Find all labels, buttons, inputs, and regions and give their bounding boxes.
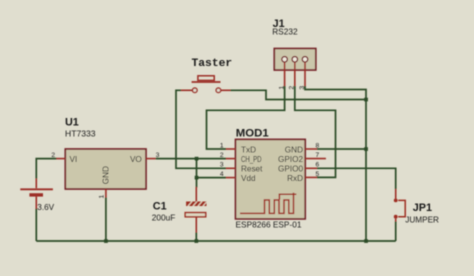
regulator U1 body [65,149,146,189]
svg-text:ESP8266 ESP-01: ESP8266 ESP-01 [236,220,302,230]
svg-text:RS232: RS232 [272,27,298,37]
junction node C1 rail [195,239,199,243]
pushbutton right lead [221,89,231,91]
jumper JP1 bracket [398,200,405,216]
svg-text:TxD: TxD [241,145,256,154]
wire: U1 VO to MOD1 CH_PD [156,158,226,160]
wire: J1 pin2 to MOD1 RxD [295,86,336,177]
svg-text:2: 2 [289,86,296,90]
pushbutton Taster cap [198,76,214,81]
pushbutton left lead [181,89,192,91]
battery BAT1 3.6V [20,179,53,209]
J1 pin 3 circle [302,57,308,63]
MOD1 antenna meander [240,193,294,214]
U1 VO pin stub [146,158,156,160]
U1 GND pin stub [105,189,107,198]
J1 pin 2 circle [292,57,298,63]
svg-text:MOD1: MOD1 [236,128,270,140]
svg-text:RxD: RxD [287,174,303,183]
wire: C1 bottom to rail [195,233,197,242]
svg-text:C1: C1 [153,201,167,213]
U1 VI pin stub [56,158,65,160]
svg-text:200uF: 200uF [152,213,176,223]
wire: Vdd branch [197,177,227,179]
svg-text:Taster: Taster [192,58,233,70]
svg-text:GPIO2: GPIO2 [278,155,303,164]
svg-text:7: 7 [316,152,320,159]
MOD1 pin 8 stub GND [305,148,317,150]
J1 pin 1 lead [284,62,286,86]
MOD1 pin 6 stub GPIO0 [305,167,317,169]
wire: MOD1 GPIO0 to JP1 [317,168,396,189]
svg-text:GND: GND [285,145,303,154]
pushbutton left terminal [193,88,198,93]
svg-text:JUMPER: JUMPER [405,216,439,225]
svg-text:Vdd: Vdd [241,174,256,183]
wire: MOD1 TxD to J1 pin1 [207,86,285,149]
jumper JP1 top pad [394,199,398,203]
svg-text:Reset: Reset [241,165,263,174]
capacitor C1 top plate [186,187,206,206]
svg-text:6: 6 [316,162,320,169]
svg-text:8: 8 [316,143,320,150]
wire: bottom ground rail [36,240,395,242]
svg-text:U1: U1 [65,117,79,129]
svg-text:2: 2 [51,152,55,159]
svg-text:VI: VI [70,155,78,164]
svg-text:3: 3 [299,86,306,90]
svg-text:1: 1 [99,195,106,199]
MOD1 pin 2 stub CH_PD [226,158,236,160]
junction node taster/GND vertical [364,98,368,102]
J1 pin 1 circle [282,57,288,63]
wire: battery minus to ground rail [35,209,37,242]
junction node U1 GND rail [104,239,108,243]
wire: J1 pin3 to GND vertical [305,86,366,241]
wire: VO node down to C1 and Vdd [196,159,198,188]
svg-text:JP1: JP1 [413,202,432,214]
J1 pin 3 lead [304,62,306,86]
MOD1 pin 5 stub RxD [305,176,317,178]
jumper JP1 top lead [395,189,397,199]
J1 pin 2 lead [294,62,296,86]
svg-text:HT7333: HT7333 [65,128,96,138]
svg-text:GND: GND [102,166,111,184]
svg-text:2: 2 [220,152,224,159]
svg-text:5: 5 [316,171,320,178]
MOD1 antenna top bar [279,194,296,199]
MOD1 pin 1 stub TxD [226,148,236,150]
svg-text:3: 3 [156,152,160,159]
capacitor C1 bottom plate [185,213,206,233]
MOD1 pin 4 stub Vdd [226,177,236,179]
wire: battery plus to U1 VI [36,159,56,179]
wire: JP1 bottom to rail [395,222,397,242]
MOD1 pin 3 stub Reset [226,167,236,169]
svg-text:CH_PD: CH_PD [241,155,262,164]
pushbutton actuator bar [192,81,221,83]
wire: taster right to GND vertical [231,90,367,99]
junction node GND vertical rail [364,239,368,243]
jumper JP1 bottom lead [395,219,397,222]
svg-text:GPIO0: GPIO0 [278,165,303,174]
jumper JP1 bottom pad [394,215,398,219]
wire: MOD1 GND pin8 to GND vertical [317,148,366,150]
wire: taster left to MOD1 Reset [176,90,226,168]
svg-text:VO: VO [130,155,142,164]
junction node Vdd/C1 [195,176,199,180]
connector J1 body [274,49,316,71]
svg-text:4: 4 [220,171,224,178]
junction node VO/C1 [195,157,199,161]
wire: U1 GND pin to rail [105,198,107,242]
MOD1 pin 7 stub GPIO2 [305,158,326,160]
svg-text:3.6V: 3.6V [37,203,54,212]
junction node GND pin8 [364,147,368,151]
svg-text:3: 3 [220,162,224,169]
svg-text:1: 1 [278,86,285,90]
pushbutton right terminal [216,88,221,93]
svg-text:1: 1 [220,143,224,150]
module MOD1 body [236,139,306,219]
